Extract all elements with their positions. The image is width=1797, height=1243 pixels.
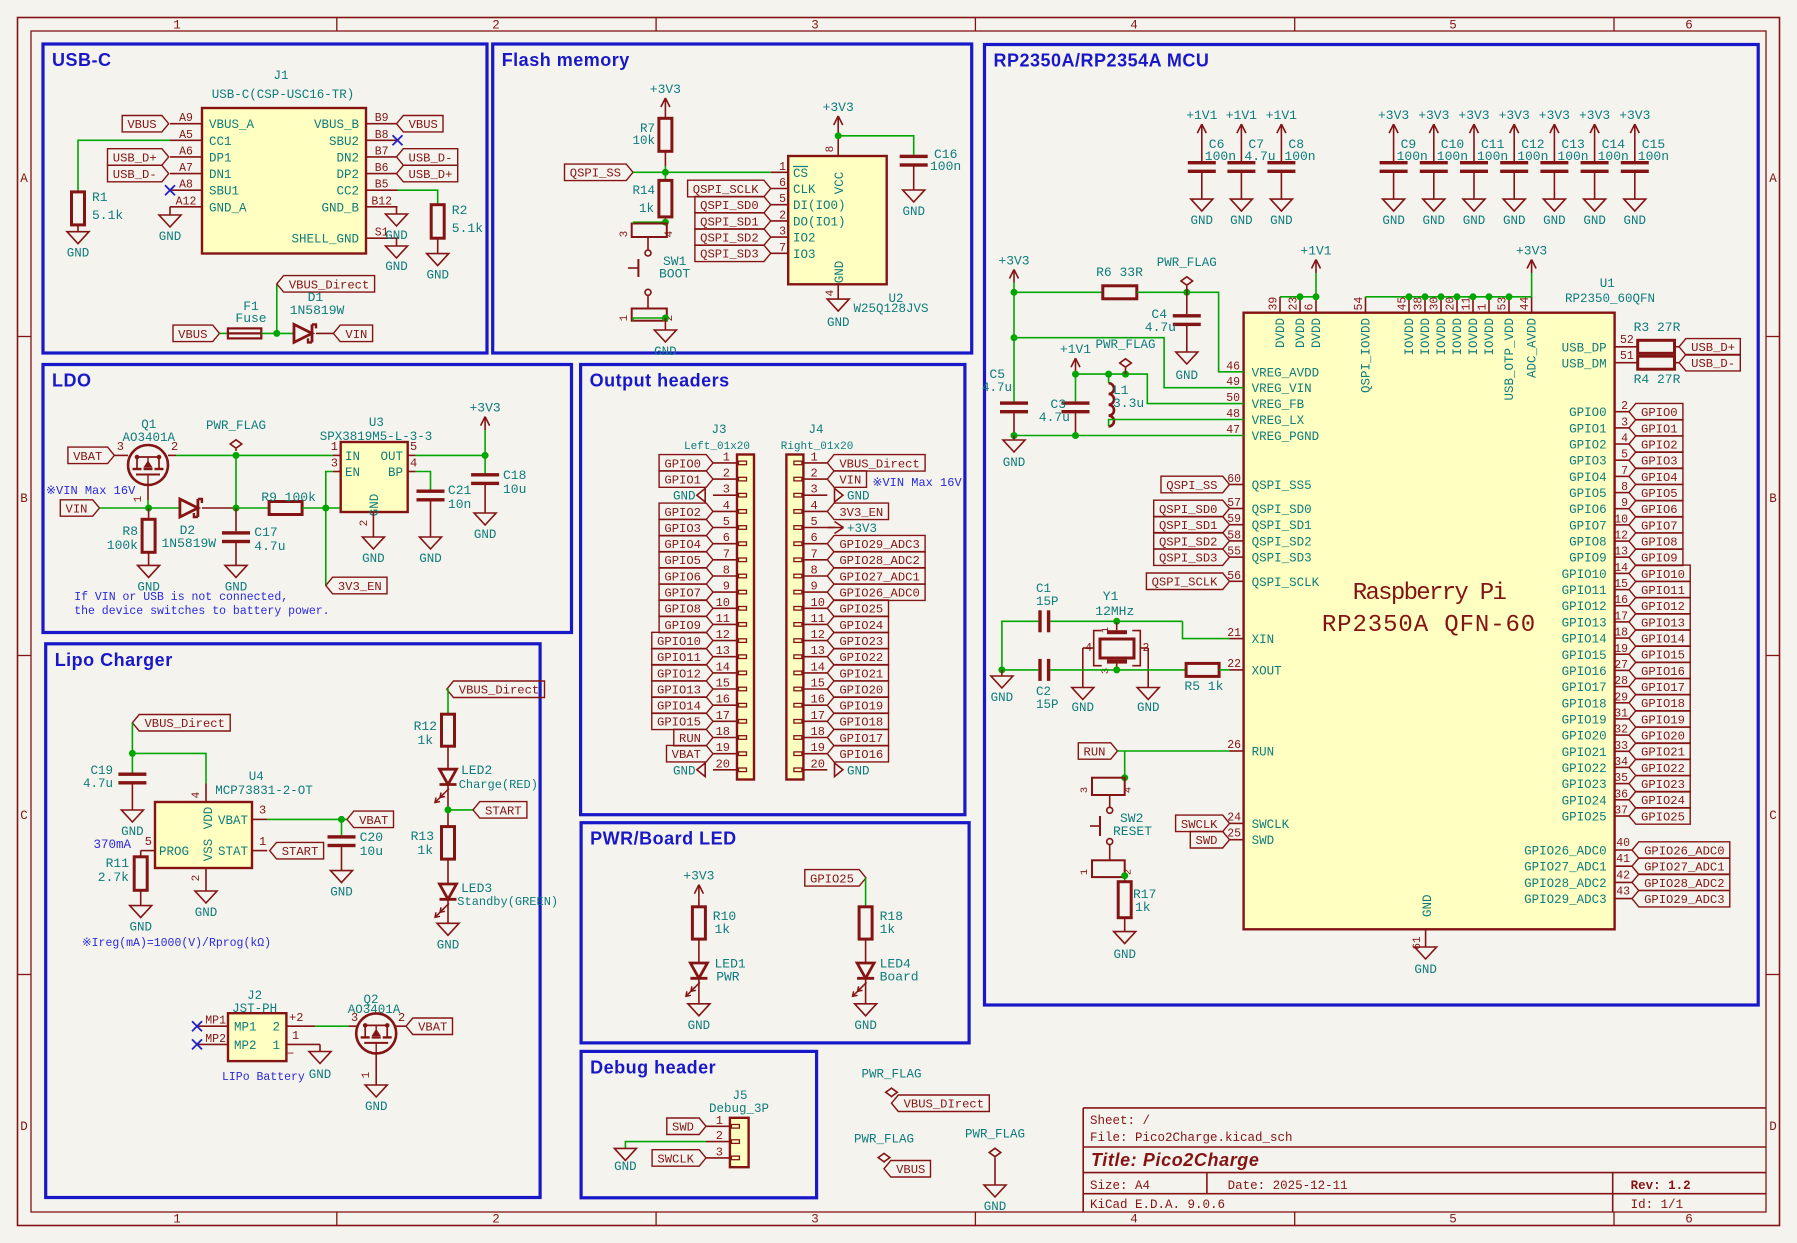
svg-text:13: 13: [716, 644, 730, 658]
svg-text:GND: GND: [673, 764, 696, 778]
svg-text:CC1: CC1: [209, 135, 232, 149]
svg-text:GPIO24: GPIO24: [1641, 794, 1685, 808]
svg-text:4: 4: [410, 457, 417, 471]
svg-text:8: 8: [723, 564, 730, 578]
svg-text:VIN: VIN: [839, 473, 861, 487]
svg-text:29: 29: [1614, 691, 1628, 704]
svg-text:VSS: VSS: [202, 839, 216, 862]
svg-text:+1V1: +1V1: [1266, 108, 1297, 123]
svg-text:C19: C19: [90, 764, 113, 778]
svg-text:5.1k: 5.1k: [452, 221, 483, 236]
svg-text:USB-C(CSP-USC16-TR): USB-C(CSP-USC16-TR): [212, 88, 355, 102]
svg-text:GPIO16: GPIO16: [1641, 665, 1685, 679]
svg-text:3: 3: [259, 804, 266, 818]
svg-text:GPIO6: GPIO6: [1641, 503, 1678, 517]
svg-text:C18: C18: [503, 468, 526, 483]
svg-text:33: 33: [1614, 740, 1628, 753]
svg-text:GPIO1: GPIO1: [664, 473, 701, 487]
svg-text:GPIO26_ADC0: GPIO26_ADC0: [1644, 844, 1724, 858]
svg-text:VBUS_Direct: VBUS_Direct: [459, 684, 539, 698]
svg-text:5: 5: [145, 835, 152, 849]
svg-text:ADC_AVDD: ADC_AVDD: [1526, 318, 1540, 378]
svg-text:R1: R1: [92, 190, 108, 205]
svg-text:DP2: DP2: [336, 168, 359, 182]
svg-text:GPIO18: GPIO18: [839, 716, 883, 730]
svg-text:GPIO13: GPIO13: [1641, 616, 1685, 630]
svg-text:J3: J3: [711, 423, 726, 437]
svg-text:17: 17: [1614, 610, 1628, 623]
svg-text:MP2: MP2: [205, 1033, 226, 1046]
svg-text:GND: GND: [1230, 214, 1253, 228]
svg-text:PWR_FLAG: PWR_FLAG: [206, 419, 266, 433]
svg-text:8: 8: [825, 146, 837, 153]
svg-text:3: 3: [331, 457, 338, 471]
svg-text:RUN: RUN: [1084, 745, 1106, 759]
svg-text:RP2350A/RP2354A MCU: RP2350A/RP2354A MCU: [994, 51, 1210, 71]
svg-text:GND: GND: [654, 345, 677, 359]
svg-text:2: 2: [191, 875, 203, 882]
svg-text:Size: A4: Size: A4: [1090, 1179, 1150, 1193]
svg-text:GPIO14: GPIO14: [657, 700, 701, 714]
svg-text:10: 10: [811, 596, 825, 610]
svg-text:40: 40: [1616, 837, 1630, 850]
svg-text:VBAT: VBAT: [672, 748, 701, 762]
svg-text:GPIO26_ADC0: GPIO26_ADC0: [839, 587, 919, 601]
svg-text:LIPo Battery: LIPo Battery: [222, 1071, 305, 1084]
svg-text:GND: GND: [688, 1019, 711, 1033]
svg-text:11: 11: [811, 612, 825, 626]
svg-text:VREG_LX: VREG_LX: [1252, 414, 1305, 428]
svg-text:VBUS_A: VBUS_A: [209, 118, 255, 132]
svg-text:GND: GND: [368, 494, 382, 517]
svg-text:3V3_EN: 3V3_EN: [338, 580, 382, 594]
svg-text:GPIO4: GPIO4: [1641, 471, 1678, 485]
svg-text:RUN: RUN: [1252, 746, 1275, 760]
svg-text:GPIO23: GPIO23: [1641, 778, 1685, 792]
svg-text:GPIO21: GPIO21: [1562, 746, 1607, 760]
svg-text:GPIO17: GPIO17: [1641, 681, 1685, 695]
svg-text:LDO: LDO: [52, 371, 92, 391]
svg-text:SHELL_GND: SHELL_GND: [291, 233, 359, 247]
svg-text:GPIO27_ADC1: GPIO27_ADC1: [1524, 861, 1607, 875]
svg-text:19: 19: [1614, 643, 1628, 656]
svg-text:GND: GND: [309, 1068, 332, 1082]
svg-text:VBUS_Direct: VBUS_Direct: [839, 457, 919, 471]
svg-text:GND: GND: [1176, 369, 1199, 383]
svg-text:PWR_FLAG: PWR_FLAG: [1157, 256, 1217, 270]
svg-text:GPIO17: GPIO17: [839, 732, 883, 746]
svg-text:7: 7: [1621, 465, 1628, 478]
svg-text:10: 10: [1614, 513, 1628, 526]
svg-text:Title: Pico2Charge: Title: Pico2Charge: [1091, 1150, 1260, 1170]
svg-text:41: 41: [1616, 853, 1630, 866]
svg-text:Sheet: /: Sheet: /: [1090, 1114, 1150, 1128]
svg-text:100k: 100k: [107, 538, 138, 553]
svg-text:DN1: DN1: [209, 168, 232, 182]
svg-text:GPIO2: GPIO2: [1641, 438, 1678, 452]
svg-text:GPIO18: GPIO18: [1641, 697, 1685, 711]
svg-text:QSPI_SS: QSPI_SS: [1166, 479, 1217, 493]
svg-text:GND: GND: [195, 906, 218, 920]
svg-text:LED2: LED2: [461, 763, 492, 778]
svg-text:6: 6: [723, 531, 730, 545]
svg-text:GND: GND: [854, 1019, 877, 1033]
svg-text:GPIO4: GPIO4: [664, 538, 701, 552]
svg-text:GPIO24: GPIO24: [1562, 794, 1607, 808]
svg-text:GND: GND: [614, 1160, 637, 1174]
svg-text:DVDD: DVDD: [1310, 318, 1324, 348]
svg-text:28: 28: [1614, 675, 1628, 688]
svg-text:GPIO9: GPIO9: [664, 619, 701, 633]
svg-text:GPIO17: GPIO17: [1562, 681, 1607, 695]
svg-text:GPIO5: GPIO5: [664, 554, 701, 568]
svg-text:12: 12: [811, 628, 825, 642]
svg-text:R4 27R: R4 27R: [1634, 372, 1681, 387]
svg-text:VBUS_Direct: VBUS_Direct: [144, 717, 224, 731]
svg-text:GND: GND: [426, 269, 449, 283]
svg-text:USB_D-: USB_D-: [409, 151, 453, 165]
svg-text:9: 9: [811, 580, 818, 594]
svg-text:GPIO7: GPIO7: [1641, 519, 1678, 533]
svg-text:+3V3: +3V3: [1539, 108, 1570, 123]
svg-text:W25Q128JVS: W25Q128JVS: [853, 302, 928, 316]
svg-text:VCC: VCC: [833, 172, 847, 195]
svg-text:Rev: 1.2: Rev: 1.2: [1631, 1179, 1691, 1193]
svg-text:Lipo Charger: Lipo Charger: [55, 650, 173, 670]
svg-text:27: 27: [1614, 659, 1628, 672]
svg-text:4: 4: [664, 230, 676, 237]
svg-text:MP1: MP1: [205, 1015, 226, 1028]
svg-text:+1V1: +1V1: [1300, 244, 1331, 259]
svg-text:R5 1k: R5 1k: [1184, 679, 1223, 694]
svg-text:QSPI_SCLK: QSPI_SCLK: [1152, 576, 1219, 590]
svg-text:MP1: MP1: [234, 1021, 257, 1035]
svg-text:KiCad E.D.A. 9.0.6: KiCad E.D.A. 9.0.6: [1090, 1198, 1225, 1212]
svg-text:Standby(GREEN): Standby(GREEN): [457, 895, 558, 909]
svg-text:16: 16: [811, 693, 825, 707]
svg-text:GPIO29_ADC3: GPIO29_ADC3: [839, 538, 919, 552]
svg-text:10n: 10n: [448, 497, 471, 512]
svg-text:+1V1: +1V1: [1226, 108, 1257, 123]
svg-text:QSPI_SD2: QSPI_SD2: [1252, 535, 1312, 549]
svg-text:1: 1: [1477, 304, 1490, 311]
svg-text:SWD: SWD: [1196, 834, 1218, 848]
svg-text:VDD: VDD: [202, 807, 216, 830]
svg-text:GND: GND: [1270, 214, 1293, 228]
svg-text:USB_DP: USB_DP: [1562, 341, 1607, 355]
svg-text:GPIO22: GPIO22: [839, 651, 883, 665]
svg-text:1k: 1k: [715, 922, 731, 937]
svg-text:35: 35: [1614, 772, 1628, 785]
svg-text:C17: C17: [254, 525, 277, 540]
svg-text:GPIO16: GPIO16: [839, 748, 883, 762]
svg-text:3: 3: [1079, 787, 1091, 793]
svg-text:100n: 100n: [930, 159, 961, 174]
svg-text:A7: A7: [179, 162, 193, 175]
svg-text:11: 11: [716, 612, 730, 626]
svg-text:C1: C1: [1036, 582, 1051, 596]
svg-text:GPIO15: GPIO15: [1562, 649, 1607, 663]
svg-text:GPIO19: GPIO19: [839, 700, 883, 714]
svg-text:+3V3: +3V3: [650, 82, 681, 97]
svg-text:RUN: RUN: [679, 732, 701, 746]
svg-text:4: 4: [1130, 19, 1138, 33]
svg-text:USB_D+: USB_D+: [1691, 341, 1735, 355]
svg-text:R2: R2: [452, 203, 468, 218]
svg-text:12MHz: 12MHz: [1095, 604, 1134, 619]
svg-text:1N5819W: 1N5819W: [290, 303, 345, 318]
svg-text:QSPI_SS: QSPI_SS: [570, 167, 621, 181]
svg-text:IOVDD: IOVDD: [1467, 318, 1481, 356]
svg-text:A12: A12: [176, 195, 197, 208]
svg-text:32: 32: [1614, 724, 1628, 737]
svg-text:XIN: XIN: [1252, 633, 1275, 647]
svg-text:1: 1: [259, 835, 266, 849]
svg-text:Fuse: Fuse: [235, 311, 266, 326]
svg-text:20: 20: [811, 757, 825, 771]
svg-text:GND: GND: [362, 552, 385, 566]
svg-text:B6: B6: [375, 162, 389, 175]
svg-text:5: 5: [811, 515, 818, 529]
svg-text:IOVDD: IOVDD: [1451, 318, 1465, 356]
svg-text:QSPI_SD2: QSPI_SD2: [700, 232, 759, 246]
svg-text:13: 13: [811, 644, 825, 658]
svg-text:GND: GND: [1421, 894, 1435, 917]
svg-text:4.7u: 4.7u: [1145, 320, 1176, 335]
svg-text:IOVDD: IOVDD: [1419, 318, 1433, 356]
svg-text:VBUS: VBUS: [127, 118, 156, 132]
svg-text:DI(IO0): DI(IO0): [793, 199, 846, 213]
svg-text:1k: 1k: [417, 733, 433, 748]
svg-text:R11: R11: [106, 856, 130, 871]
svg-text:VBUS_DIrect: VBUS_DIrect: [904, 1098, 984, 1112]
svg-text:1N5819W: 1N5819W: [161, 536, 216, 551]
svg-text:7: 7: [811, 547, 818, 561]
svg-text:GND_A: GND_A: [209, 201, 247, 215]
svg-text:1: 1: [619, 314, 631, 321]
svg-text:GPIO20: GPIO20: [1562, 730, 1607, 744]
svg-text:IO3: IO3: [793, 248, 816, 262]
svg-text:DVDD: DVDD: [1294, 318, 1308, 348]
svg-text:GPIO23: GPIO23: [1562, 778, 1607, 792]
svg-text:3: 3: [351, 1011, 358, 1025]
svg-text:GND_B: GND_B: [321, 201, 359, 215]
svg-text:2: 2: [723, 467, 730, 481]
svg-text:B5: B5: [375, 179, 389, 192]
svg-text:1: 1: [173, 1213, 181, 1227]
svg-text:C: C: [1769, 809, 1777, 823]
svg-text:52: 52: [1620, 334, 1634, 347]
svg-text:USB-C: USB-C: [52, 50, 112, 70]
svg-text:8: 8: [811, 564, 818, 578]
svg-text:Y1: Y1: [1103, 589, 1119, 604]
svg-text:Raspberry Pi: Raspberry Pi: [1353, 580, 1507, 607]
svg-text:QSPI_SD1: QSPI_SD1: [700, 215, 759, 229]
svg-text:4.7u: 4.7u: [982, 381, 1012, 395]
svg-text:5: 5: [1449, 1213, 1457, 1227]
svg-text:+3V3: +3V3: [1499, 108, 1530, 123]
svg-text:QSPI_SCLK: QSPI_SCLK: [693, 183, 760, 197]
svg-text:GND: GND: [419, 552, 442, 566]
svg-text:49: 49: [1226, 376, 1240, 389]
svg-text:5.1k: 5.1k: [92, 208, 123, 223]
svg-text:PWR_FLAG: PWR_FLAG: [861, 1067, 921, 1081]
svg-text:PWR_FLAG: PWR_FLAG: [1095, 338, 1155, 352]
svg-text:GPIO2: GPIO2: [1569, 439, 1607, 453]
svg-text:IOVDD: IOVDD: [1483, 318, 1497, 356]
svg-text:CLK: CLK: [793, 183, 816, 197]
svg-text:GND: GND: [833, 261, 847, 284]
svg-text:31: 31: [1614, 707, 1628, 720]
svg-text:GPIO5: GPIO5: [1569, 487, 1607, 501]
svg-text:4.7u: 4.7u: [254, 539, 285, 554]
svg-text:SBU2: SBU2: [329, 135, 359, 149]
svg-text:R9 100k: R9 100k: [261, 490, 316, 505]
svg-text:10: 10: [716, 596, 730, 610]
svg-text:R12: R12: [414, 719, 437, 734]
svg-text:9: 9: [723, 580, 730, 594]
svg-text:GND: GND: [1072, 701, 1095, 715]
svg-text:B9: B9: [375, 112, 389, 125]
svg-text:GPIO22: GPIO22: [1562, 762, 1607, 776]
svg-text:GPIO1: GPIO1: [1569, 422, 1607, 436]
svg-text:5: 5: [723, 515, 730, 529]
svg-text:GPIO6: GPIO6: [1569, 503, 1607, 517]
svg-text:18: 18: [1614, 627, 1628, 640]
svg-text:4: 4: [1621, 433, 1628, 446]
svg-text:QSPI_SD0: QSPI_SD0: [700, 199, 759, 213]
svg-text:+1V1: +1V1: [1186, 108, 1217, 123]
svg-text:22: 22: [1227, 658, 1241, 671]
svg-text:GND: GND: [847, 490, 870, 504]
svg-text:Board: Board: [880, 970, 919, 985]
svg-text:14: 14: [1614, 562, 1628, 575]
svg-text:GND: GND: [1463, 214, 1486, 228]
svg-text:GND: GND: [1583, 214, 1606, 228]
svg-text:LED3: LED3: [461, 881, 492, 896]
svg-text:EN: EN: [345, 466, 360, 480]
svg-text:SWCLK: SWCLK: [1181, 818, 1218, 832]
svg-text:GND: GND: [984, 1200, 1007, 1214]
svg-text:20: 20: [716, 757, 730, 771]
svg-text:VBAT: VBAT: [218, 814, 249, 828]
svg-text:1: 1: [723, 450, 730, 464]
svg-text:VBAT: VBAT: [418, 1021, 447, 1035]
svg-text:GPIO29_ADC3: GPIO29_ADC3: [1524, 893, 1607, 907]
svg-text:GPIO18: GPIO18: [1562, 697, 1607, 711]
svg-text:VBAT: VBAT: [359, 814, 388, 828]
svg-text:15: 15: [716, 677, 730, 691]
svg-text:AO3401A: AO3401A: [122, 431, 175, 445]
svg-text:VBAT: VBAT: [73, 450, 102, 464]
svg-text:VREG_AVDD: VREG_AVDD: [1252, 366, 1320, 380]
svg-text:A6: A6: [179, 145, 193, 158]
svg-text:START: START: [485, 804, 522, 818]
svg-text:PWR_FLAG: PWR_FLAG: [965, 1128, 1025, 1142]
svg-text:15: 15: [811, 677, 825, 691]
svg-text:1: 1: [1100, 627, 1112, 633]
svg-text:+2: +2: [289, 1011, 303, 1025]
svg-text:+3V3: +3V3: [1458, 108, 1489, 123]
svg-text:2: 2: [359, 520, 371, 527]
svg-text:B7: B7: [375, 145, 389, 158]
svg-text:GPIO12: GPIO12: [1562, 600, 1607, 614]
svg-text:GND: GND: [1382, 214, 1405, 228]
svg-text:2: 2: [1621, 400, 1628, 413]
svg-text:GPIO26_ADC0: GPIO26_ADC0: [1524, 845, 1607, 859]
svg-text:6: 6: [779, 177, 786, 190]
svg-text:10u: 10u: [503, 482, 526, 497]
svg-text:RESET: RESET: [1113, 824, 1152, 839]
svg-text:16: 16: [716, 693, 730, 707]
svg-text:GND: GND: [1003, 456, 1026, 470]
svg-text:GPIO27_ADC1: GPIO27_ADC1: [1644, 861, 1724, 875]
svg-text:GND: GND: [1191, 214, 1214, 228]
svg-text:GPIO20: GPIO20: [1641, 730, 1685, 744]
svg-text:QSPI_SD1: QSPI_SD1: [1252, 519, 1312, 533]
svg-text:+3V3: +3V3: [1619, 108, 1650, 123]
svg-text:C20: C20: [360, 830, 383, 845]
svg-text:Flash memory: Flash memory: [502, 50, 630, 70]
svg-text:GPIO0: GPIO0: [664, 457, 701, 471]
svg-text:8: 8: [1621, 481, 1628, 494]
svg-text:GPIO11: GPIO11: [1562, 584, 1607, 598]
svg-text:GND: GND: [847, 764, 870, 778]
svg-text:GPIO15: GPIO15: [1641, 649, 1685, 663]
svg-text:VREG_FB: VREG_FB: [1252, 398, 1305, 412]
svg-text:GPIO4: GPIO4: [1569, 471, 1607, 485]
svg-text:GPIO8: GPIO8: [1641, 536, 1678, 550]
svg-text:VREG_PGND: VREG_PGND: [1252, 430, 1320, 444]
svg-text:2: 2: [716, 1129, 723, 1143]
svg-text:GPIO23: GPIO23: [839, 635, 883, 649]
svg-text:GPIO21: GPIO21: [1641, 746, 1685, 760]
svg-text:4.7u: 4.7u: [83, 777, 113, 791]
svg-text:3: 3: [811, 19, 819, 33]
svg-text:VBUS_B: VBUS_B: [314, 118, 360, 132]
svg-text:15: 15: [1614, 578, 1628, 591]
svg-text:−: −: [287, 1047, 294, 1061]
svg-text:47: 47: [1226, 424, 1240, 437]
svg-text:4: 4: [723, 499, 730, 513]
svg-text:GND: GND: [673, 490, 696, 504]
svg-text:GND: GND: [991, 691, 1014, 705]
svg-text:QSPI_SCLK: QSPI_SCLK: [1252, 576, 1320, 590]
svg-text:19: 19: [811, 741, 825, 755]
svg-text:GPIO10: GPIO10: [1562, 568, 1607, 582]
svg-text:GND: GND: [67, 247, 90, 261]
svg-text:34: 34: [1614, 756, 1628, 769]
svg-text:+3V3: +3V3: [1378, 108, 1409, 123]
svg-text:B8: B8: [375, 129, 389, 142]
svg-text:6: 6: [1685, 19, 1693, 33]
svg-text:DO(IO1): DO(IO1): [793, 215, 846, 229]
svg-text:MP2: MP2: [234, 1039, 257, 1053]
svg-text:R6 33R: R6 33R: [1096, 265, 1143, 280]
svg-text:A: A: [1769, 172, 1777, 186]
svg-text:QSPI_SD3: QSPI_SD3: [1252, 552, 1312, 566]
svg-text:46: 46: [1226, 360, 1240, 373]
svg-text:VIN: VIN: [66, 502, 88, 516]
svg-text:VBUS: VBUS: [178, 328, 207, 342]
svg-text:3: 3: [1621, 416, 1628, 429]
svg-text:GPIO14: GPIO14: [1641, 633, 1685, 647]
svg-text:GND: GND: [902, 205, 925, 219]
svg-text:+1V1: +1V1: [1060, 342, 1091, 357]
svg-text:39: 39: [1268, 297, 1281, 311]
svg-text:26: 26: [1227, 739, 1241, 752]
svg-text:GPIO20: GPIO20: [839, 683, 883, 697]
